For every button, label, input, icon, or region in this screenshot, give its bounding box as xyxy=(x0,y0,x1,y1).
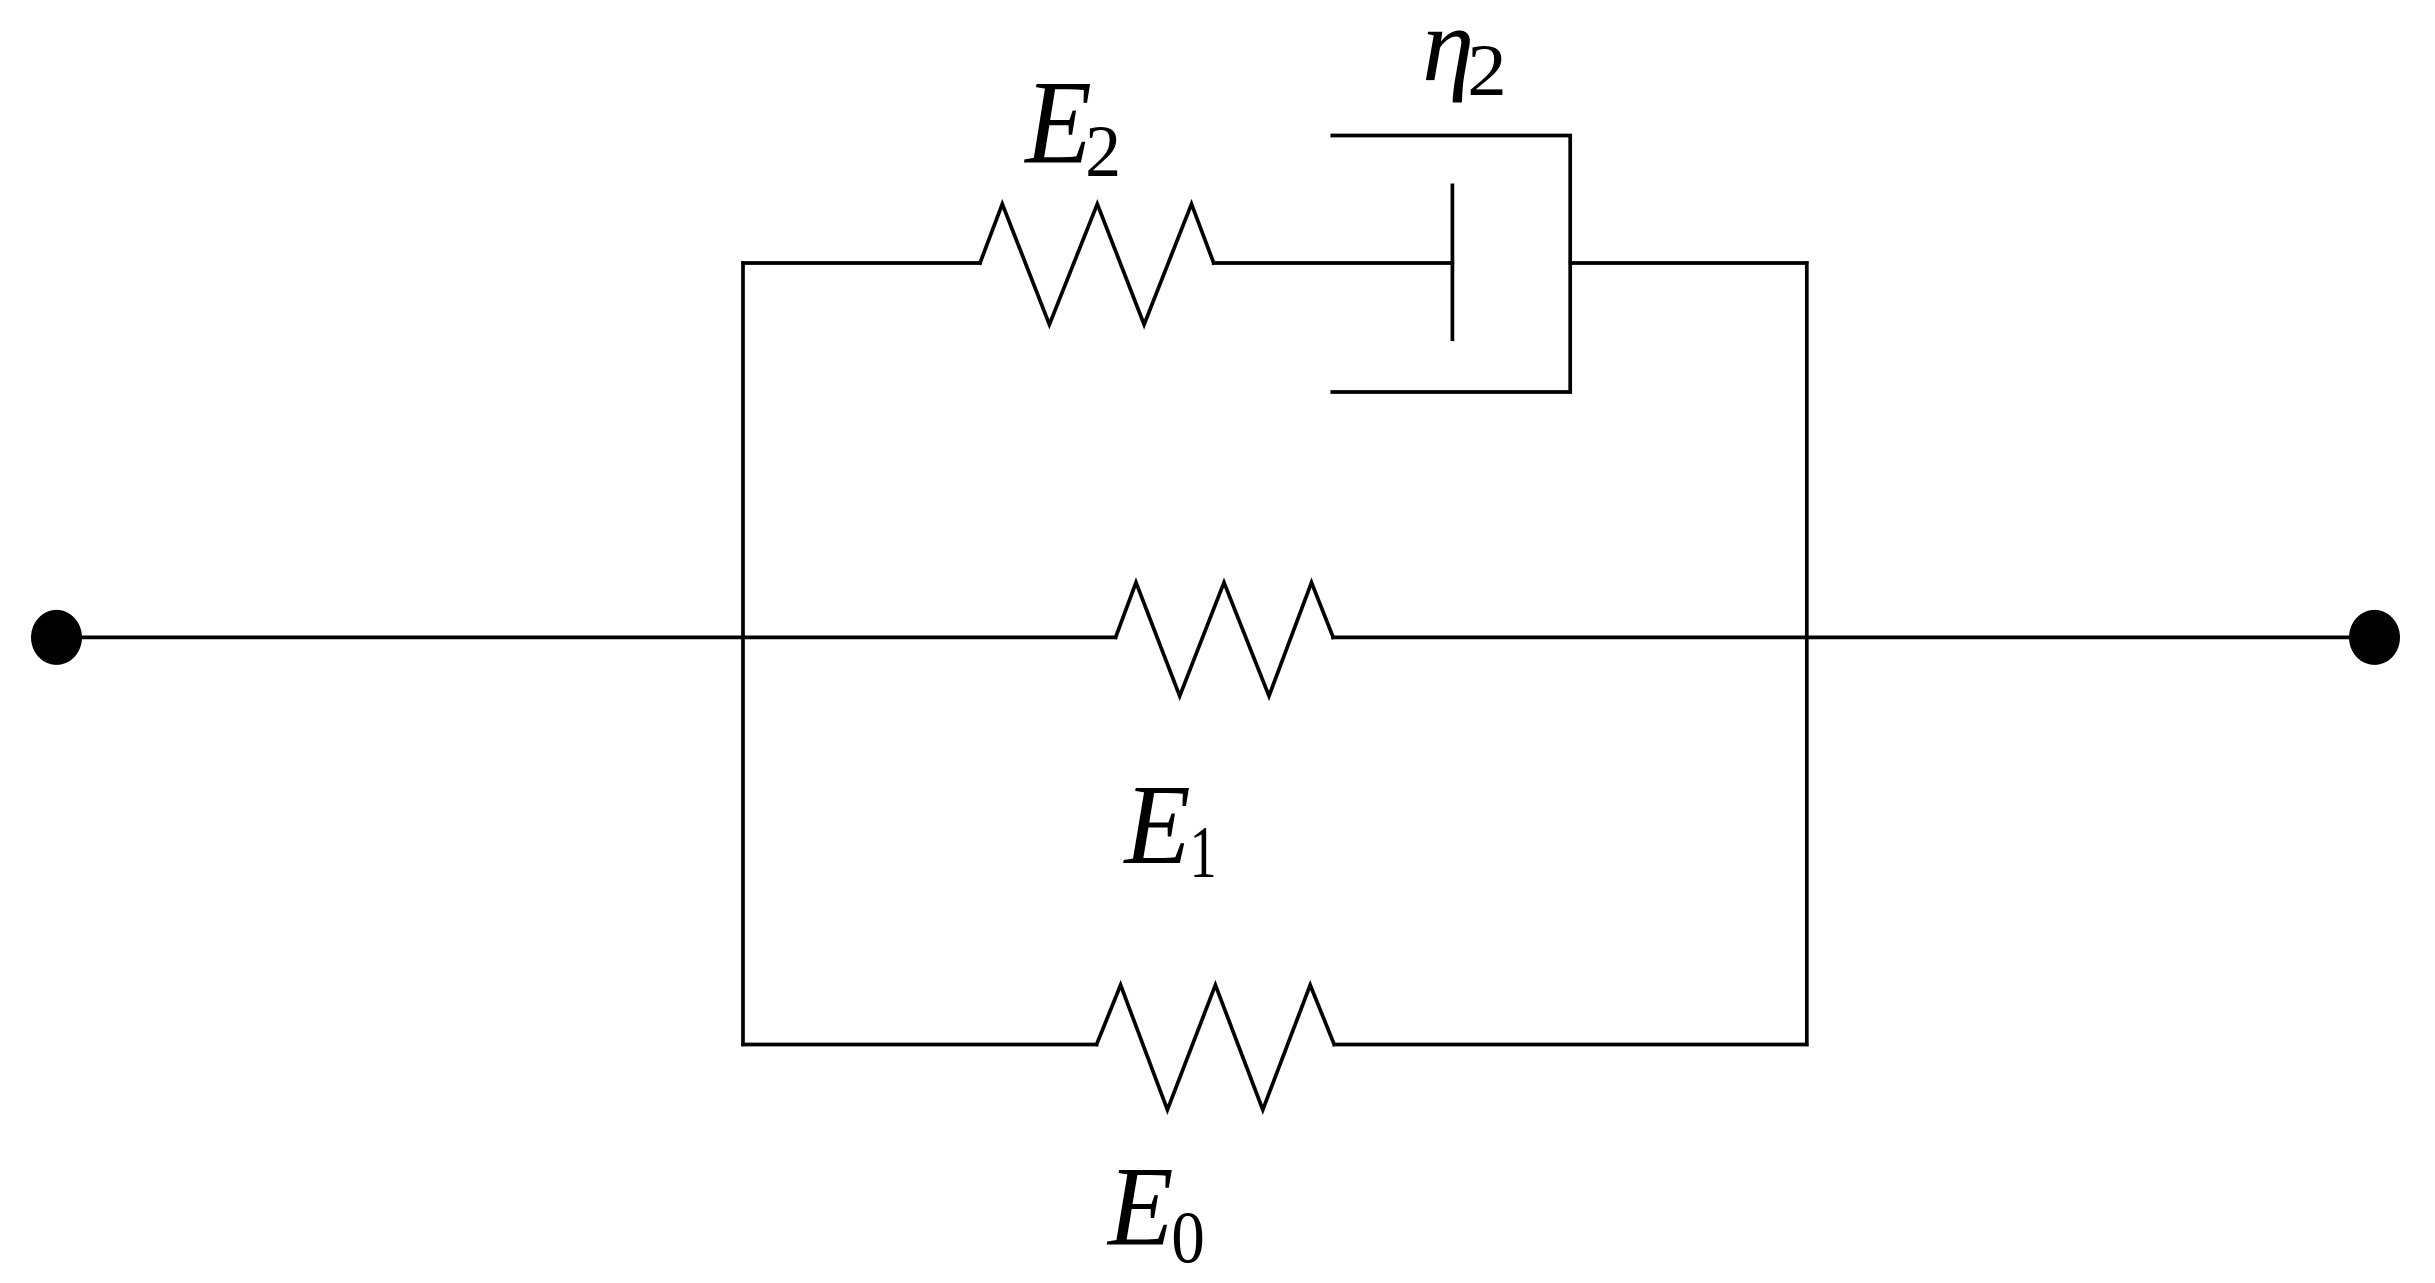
svg-text:E: E xyxy=(1023,55,1091,188)
svg-text:E: E xyxy=(1123,761,1191,888)
svg-text:2: 2 xyxy=(1467,30,1507,112)
svg-text:0: 0 xyxy=(1171,1197,1205,1279)
svg-text:E: E xyxy=(1106,1143,1173,1269)
svg-text:1: 1 xyxy=(1190,812,1217,894)
svg-text:2: 2 xyxy=(1085,111,1121,193)
